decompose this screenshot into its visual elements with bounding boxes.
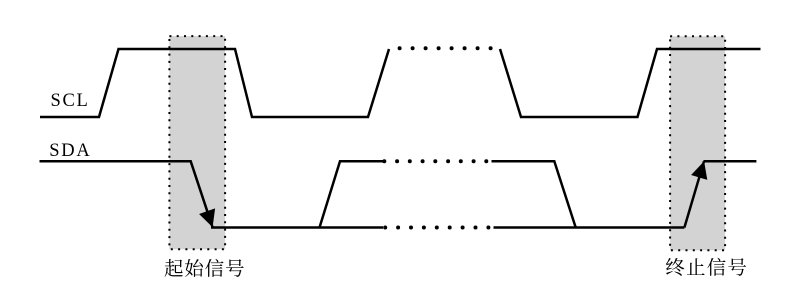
wire SDA rise to high + high before dots (320, 161, 384, 227)
label 终止信号 (666, 258, 684, 276)
wire SDA high left + fall into start box (40, 161, 213, 227)
wire SDA rise in stop box (684, 161, 704, 227)
node SDA low dotted continuation (383, 226, 387, 230)
wire SCL left segment: low, rise, high through start box, fall, low, rise (40, 49, 389, 117)
arrowhead start (SDA falling edge) (199, 208, 215, 227)
wire SDA high after dots + fall (492, 161, 576, 227)
wire SDA low after dots into stop box (494, 226, 685, 229)
wire SDA low after start arrow (211, 226, 383, 229)
start-signal shaded region (dotted border) (169, 36, 225, 249)
node SCL dotted continuation (398, 46, 402, 50)
stop-signal shaded region (dotted border) (670, 36, 725, 250)
wire SDA high right end (704, 160, 757, 163)
svg-text:SCL: SCL (51, 91, 90, 111)
wire SCL right segment: fall after dots, low, rise, high through stop box (500, 49, 761, 117)
label 起始信号 (165, 259, 183, 277)
arrowhead stop (SDA rising edge) (691, 161, 707, 180)
node SDA high dotted continuation (382, 159, 386, 163)
svg-text:SDA: SDA (49, 141, 91, 161)
